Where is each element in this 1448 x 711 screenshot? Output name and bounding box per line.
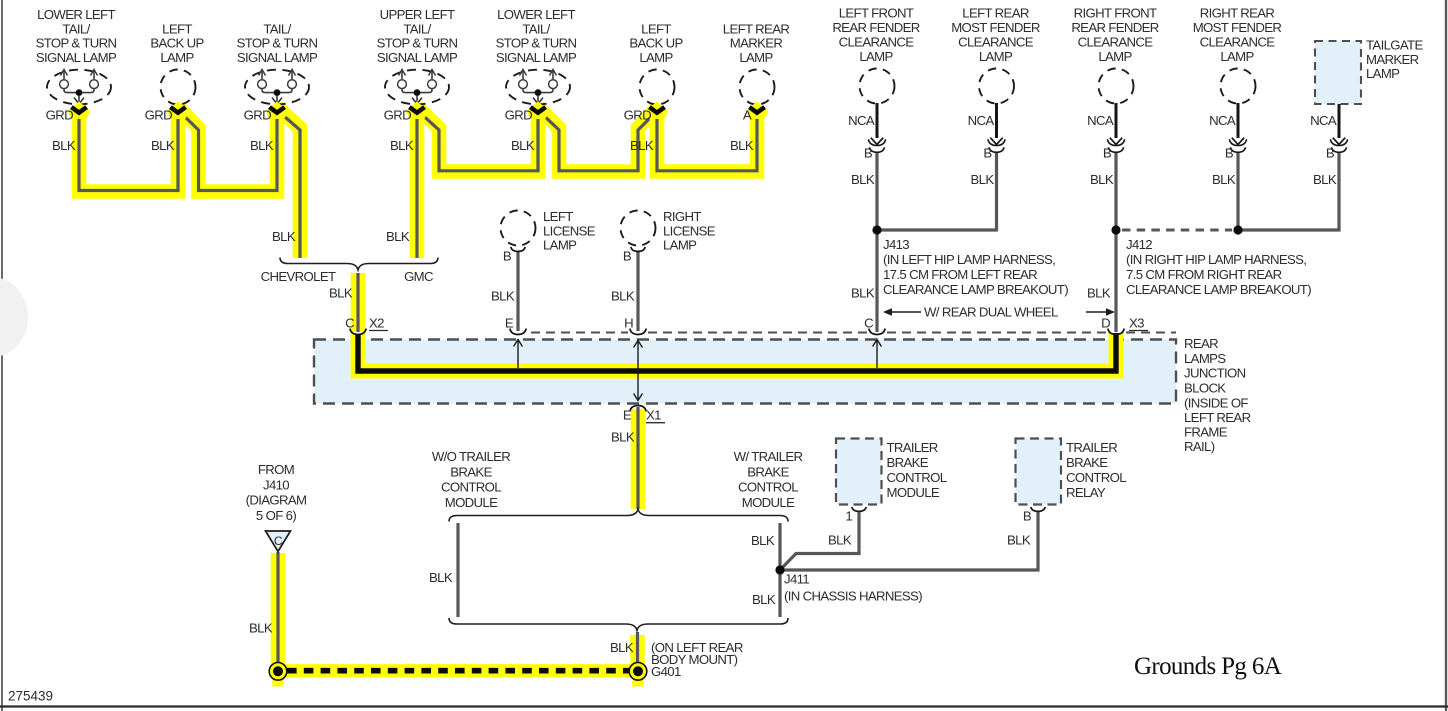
svg-text:B: B bbox=[1023, 509, 1032, 524]
splice J411 bbox=[775, 565, 784, 574]
svg-text:X3: X3 bbox=[1129, 316, 1144, 331]
internal arrow to pin E bbox=[514, 340, 523, 369]
wire: J411 to trailer brake control module pin 1 bbox=[780, 511, 859, 570]
wire: lamp4 to lamp5 (BLK, highlighted) bbox=[417, 107, 538, 172]
junction block connector face dashed line bbox=[531, 332, 1176, 334]
svg-text:BLK: BLK bbox=[751, 533, 775, 548]
svg-text:UPPER LEFT: UPPER LEFT bbox=[380, 7, 455, 22]
svg-text:TRAILER: TRAILER bbox=[887, 440, 938, 455]
svg-text:LAMP: LAMP bbox=[1098, 49, 1132, 64]
svg-text:LAMPS: LAMPS bbox=[1184, 351, 1226, 366]
lamp4 upper left tail/stop & turn signal lamp bbox=[377, 7, 458, 104]
svg-text:X1: X1 bbox=[646, 408, 661, 423]
lamp8 left front rear fender clearance lamp bbox=[832, 6, 919, 104]
svg-text:CONTROL: CONTROL bbox=[887, 470, 947, 485]
svg-text:NCA: NCA bbox=[968, 113, 995, 128]
internal arrow pin H to pin X1-E bbox=[634, 341, 643, 401]
inline connector tailgate lamp pin B bbox=[1330, 138, 1347, 153]
svg-text:GRD: GRD bbox=[244, 108, 271, 123]
svg-text:BLK: BLK bbox=[511, 138, 535, 153]
svg-text:(IN CHASSIS HARNESS): (IN CHASSIS HARNESS) bbox=[784, 589, 922, 604]
splice under lamp11 bbox=[1233, 225, 1242, 234]
svg-text:BLK: BLK bbox=[1090, 172, 1114, 187]
svg-text:J413: J413 bbox=[883, 237, 909, 252]
svg-text:B: B bbox=[864, 146, 873, 161]
svg-text:BLK: BLK bbox=[971, 172, 995, 187]
svg-text:RIGHT REAR: RIGHT REAR bbox=[1200, 6, 1275, 21]
svg-text:LAMP: LAMP bbox=[859, 49, 893, 64]
svg-text:BLK: BLK bbox=[752, 592, 776, 607]
pin labels lamp11 bbox=[1209, 113, 1236, 187]
w/o trailer brake control module label bbox=[432, 449, 510, 510]
svg-text:G401: G401 bbox=[651, 664, 681, 679]
wire: J413 splice to lamp9 bbox=[877, 228, 997, 231]
pin D / X3 labels at block entry bbox=[1101, 316, 1148, 331]
wire: left license lamp to block pin E bbox=[516, 251, 519, 331]
left license lamp bbox=[501, 209, 596, 253]
right license lamp bbox=[621, 209, 716, 253]
svg-text:REAR: REAR bbox=[1184, 336, 1218, 351]
junction block label bbox=[1184, 336, 1251, 454]
wire: NCA lead x=1238 bbox=[1237, 103, 1240, 138]
lamp10 right front rear fender clearance lamp bbox=[1071, 6, 1158, 104]
svg-text:BLK: BLK bbox=[329, 286, 353, 301]
terminal of lamp3 bbox=[266, 101, 289, 119]
wire: lamp1 ground to lamp2 (BLK, highlighted) bbox=[79, 107, 178, 192]
svg-text:H: H bbox=[624, 316, 633, 331]
wire: splice to tailgate marker lamp bbox=[1238, 152, 1339, 231]
svg-text:CLEARANCE: CLEARANCE bbox=[1200, 35, 1276, 50]
svg-text:B: B bbox=[503, 249, 512, 264]
svg-text:SIGNAL LAMP: SIGNAL LAMP bbox=[237, 50, 318, 65]
svg-text:NCA: NCA bbox=[1310, 113, 1337, 128]
svg-text:B: B bbox=[983, 146, 992, 161]
page bottom border bbox=[0, 705, 1448, 707]
left edge scroll tab bbox=[0, 278, 28, 357]
terminal of lamp6 bbox=[646, 101, 669, 119]
terminal of lamp4 bbox=[406, 101, 429, 119]
svg-text:TRAILER: TRAILER bbox=[1066, 440, 1117, 455]
svg-text:BLK: BLK bbox=[151, 138, 175, 153]
wire: lamp9 connector down bbox=[995, 152, 998, 232]
svg-text:LEFT REAR: LEFT REAR bbox=[962, 6, 1029, 21]
svg-text:BLK: BLK bbox=[272, 229, 296, 244]
svg-text:MOST FENDER: MOST FENDER bbox=[1193, 20, 1282, 35]
entry cup H bbox=[630, 329, 646, 335]
svg-text:BLK: BLK bbox=[611, 289, 635, 304]
svg-text:MOST FENDER: MOST FENDER bbox=[951, 20, 1040, 35]
terminal of lamp5 bbox=[527, 101, 550, 119]
svg-text:5 OF 6): 5 OF 6) bbox=[256, 508, 296, 523]
svg-text:1: 1 bbox=[845, 509, 852, 524]
svg-text:LICENSE: LICENSE bbox=[663, 223, 716, 238]
wire: right license lamp to block pin H bbox=[636, 251, 639, 331]
svg-text:LEFT REAR: LEFT REAR bbox=[1184, 410, 1251, 425]
lamp6 left back up lamp bbox=[629, 21, 683, 104]
svg-text:BLK: BLK bbox=[851, 172, 875, 187]
svg-text:LAMP: LAMP bbox=[639, 50, 673, 65]
lamp2 left back up lamp bbox=[150, 21, 204, 104]
svg-text:17.5 CM FROM LEFT REAR: 17.5 CM FROM LEFT REAR bbox=[883, 267, 1037, 282]
wire: lamp11 connector down bbox=[1236, 152, 1239, 232]
svg-text:C: C bbox=[864, 316, 874, 331]
pin labels lamp10 bbox=[1087, 113, 1114, 187]
svg-text:LAMP: LAMP bbox=[979, 49, 1013, 64]
w/ trailer brake control module label bbox=[734, 449, 803, 510]
ground tail left bbox=[272, 677, 284, 687]
svg-text:CLEARANCE: CLEARANCE bbox=[958, 35, 1034, 50]
svg-text:GRD: GRD bbox=[384, 108, 411, 123]
svg-text:W/ TRAILER: W/ TRAILER bbox=[734, 449, 803, 464]
svg-text:BRAKE: BRAKE bbox=[1066, 455, 1108, 470]
svg-text:LAMP: LAMP bbox=[1220, 49, 1254, 64]
right license lamp pin B cup bbox=[631, 247, 645, 252]
svg-text:7.5 CM FROM RIGHT REAR: 7.5 CM FROM RIGHT REAR bbox=[1126, 267, 1282, 282]
svg-text:BACK UP: BACK UP bbox=[150, 36, 204, 51]
svg-text:BLK: BLK bbox=[1212, 172, 1236, 187]
svg-text:BACK UP: BACK UP bbox=[629, 36, 683, 51]
svg-text:RIGHT FRONT: RIGHT FRONT bbox=[1074, 6, 1157, 21]
wire: NCA lead x=877 bbox=[876, 103, 879, 138]
wire: brace to junction block pin C X2 (BLK, highlighted) bbox=[351, 273, 366, 332]
wire: module brace to ground G401 (BLK, highlighted) bbox=[630, 635, 645, 666]
svg-text:CLEARANCE: CLEARANCE bbox=[1078, 35, 1154, 50]
svg-text:NCA: NCA bbox=[848, 113, 875, 128]
svg-text:STOP & TURN: STOP & TURN bbox=[377, 36, 458, 51]
internal arrow to pin C (J413) bbox=[873, 340, 882, 369]
svg-text:CONTROL: CONTROL bbox=[1066, 470, 1126, 485]
wire: lamp2 to lamp3 (BLK, highlighted) bbox=[178, 107, 277, 192]
lamp7 left rear marker lamp bbox=[723, 21, 790, 104]
svg-text:MARKER: MARKER bbox=[730, 36, 783, 51]
wire: lamp5 to lamp6 (BLK, highlighted) bbox=[538, 107, 657, 172]
terminal of lamp1 bbox=[68, 101, 91, 119]
left license lamp pin B cup bbox=[511, 247, 525, 252]
svg-text:BLK: BLK bbox=[1313, 172, 1337, 187]
svg-text:SIGNAL LAMP: SIGNAL LAMP bbox=[36, 50, 117, 65]
from J410 label bbox=[246, 462, 307, 523]
svg-text:BLK: BLK bbox=[386, 229, 410, 244]
svg-text:BLOCK: BLOCK bbox=[1184, 381, 1226, 396]
svg-text:C: C bbox=[345, 316, 355, 331]
lamp11 right rear most fender clearance lamp bbox=[1193, 6, 1282, 104]
svg-text:LEFT: LEFT bbox=[641, 21, 671, 36]
inline connector of lamp10 pin B bbox=[1107, 138, 1124, 153]
svg-text:TAIL/: TAIL/ bbox=[403, 21, 431, 36]
svg-text:TAILGATE: TAILGATE bbox=[1366, 38, 1423, 53]
wire: J412 dashed link to splice under lamp11 bbox=[1122, 229, 1232, 232]
svg-text:BLK: BLK bbox=[390, 138, 414, 153]
svg-text:CLEARANCE LAMP BREAKOUT): CLEARANCE LAMP BREAKOUT) bbox=[1126, 282, 1311, 297]
ground stud left (from J410) bbox=[269, 663, 287, 681]
svg-text:Grounds Pg 6A: Grounds Pg 6A bbox=[1134, 653, 1282, 680]
svg-text:MODULE: MODULE bbox=[742, 495, 795, 510]
svg-text:LEFT FRONT: LEFT FRONT bbox=[839, 6, 914, 21]
svg-text:(DIAGRAM: (DIAGRAM bbox=[246, 493, 307, 508]
wire: w/ trailer brake module path bbox=[778, 523, 781, 617]
svg-text:BLK: BLK bbox=[491, 289, 515, 304]
BLK labels J411 path bbox=[751, 533, 776, 607]
svg-text:CONTROL: CONTROL bbox=[441, 480, 501, 495]
entry cup C2 bbox=[869, 329, 885, 335]
wire: lamp3 to Chevrolet brace (BLK, highlighted) bbox=[277, 107, 300, 258]
svg-text:BRAKE: BRAKE bbox=[450, 464, 492, 479]
ground G401 note bbox=[651, 640, 743, 679]
svg-text:CLEARANCE: CLEARANCE bbox=[839, 35, 915, 50]
GRD/BLK labels lamps 1-7 bbox=[46, 108, 754, 153]
wire: junction block X1 pin E down to module brace (BLK, highlighted) bbox=[631, 409, 646, 509]
entry cup C bbox=[350, 329, 366, 335]
svg-text:W/ REAR DUAL WHEEL: W/ REAR DUAL WHEEL bbox=[924, 305, 1058, 320]
svg-text:C: C bbox=[274, 534, 283, 548]
svg-text:STOP & TURN: STOP & TURN bbox=[496, 36, 577, 51]
trailer brake control module box bbox=[836, 439, 947, 505]
relay pin B cup bbox=[1031, 507, 1045, 512]
svg-text:MODULE: MODULE bbox=[887, 485, 940, 500]
exit cup X1 bbox=[630, 406, 646, 412]
pin C / X2 labels at block entry bbox=[345, 316, 388, 331]
svg-text:LAMP: LAMP bbox=[160, 50, 194, 65]
svg-text:JUNCTION: JUNCTION bbox=[1184, 366, 1246, 381]
wire: tailgate lamp NCA lead bbox=[1338, 104, 1341, 138]
svg-text:GRD: GRD bbox=[46, 108, 73, 123]
svg-text:BLK: BLK bbox=[52, 138, 76, 153]
svg-text:B: B bbox=[623, 249, 632, 264]
svg-text:SIGNAL LAMP: SIGNAL LAMP bbox=[496, 50, 577, 65]
svg-text:W/O TRAILER: W/O TRAILER bbox=[432, 449, 510, 464]
svg-text:A: A bbox=[743, 108, 752, 123]
svg-text:BLK: BLK bbox=[1007, 533, 1031, 548]
wire: from J410 triangle down to ground (BLK, highlighted) bbox=[271, 553, 286, 666]
svg-text:CLEARANCE LAMP BREAKOUT): CLEARANCE LAMP BREAKOUT) bbox=[883, 282, 1068, 297]
svg-text:J410: J410 bbox=[263, 477, 289, 492]
rear lamps junction block bbox=[314, 340, 1176, 404]
svg-text:BLK: BLK bbox=[429, 570, 453, 585]
wire: lamp4 to GMC brace (BLK, highlighted) bbox=[410, 107, 425, 258]
tailgate marker lamp (box) bbox=[1315, 38, 1423, 105]
page left border bbox=[1, 0, 3, 711]
svg-text:LOWER LEFT: LOWER LEFT bbox=[497, 7, 575, 22]
svg-text:GRD: GRD bbox=[624, 108, 651, 123]
svg-text:BLK: BLK bbox=[730, 138, 754, 153]
J410 triangle connector C bbox=[266, 531, 291, 552]
svg-text:STOP & TURN: STOP & TURN bbox=[237, 36, 318, 51]
ground G401 bbox=[629, 663, 647, 681]
terminal of lamp7 bbox=[746, 101, 769, 119]
svg-text:NCA: NCA bbox=[1209, 113, 1236, 128]
svg-text:FROM: FROM bbox=[258, 462, 294, 477]
top option brace bbox=[449, 509, 788, 522]
svg-text:D: D bbox=[1101, 316, 1110, 331]
page right border bbox=[1445, 0, 1447, 711]
wire: lamp8 connector to J413 and block pin C bbox=[875, 152, 878, 333]
bottom option brace bbox=[449, 618, 788, 631]
svg-text:LICENSE: LICENSE bbox=[543, 223, 596, 238]
pin labels lamp9 bbox=[968, 113, 995, 187]
lamp5 lower left tail/stop & turn signal lamp bbox=[496, 7, 577, 104]
svg-text:BRAKE: BRAKE bbox=[747, 464, 789, 479]
svg-text:LEFT REAR: LEFT REAR bbox=[723, 21, 790, 36]
svg-text:SIGNAL LAMP: SIGNAL LAMP bbox=[377, 50, 458, 65]
wire: NCA lead x=1116 bbox=[1115, 103, 1118, 138]
wire: junction block internal bus (highlighted) bbox=[358, 333, 1116, 371]
module pin 1 cup bbox=[852, 507, 866, 512]
BLK labels above brand brace bbox=[272, 229, 410, 244]
svg-text:BLK: BLK bbox=[249, 621, 273, 636]
svg-text:FRAME: FRAME bbox=[1184, 424, 1228, 439]
wire: J411 to trailer brake control relay pin B bbox=[780, 511, 1038, 570]
svg-text:X2: X2 bbox=[369, 316, 384, 331]
svg-text:MODULE: MODULE bbox=[445, 495, 498, 510]
svg-text:J411: J411 bbox=[784, 572, 809, 587]
svg-text:GRD: GRD bbox=[505, 108, 532, 123]
splice J412 bbox=[1111, 225, 1120, 234]
terminal of lamp2 bbox=[167, 101, 190, 119]
svg-text:TAIL/: TAIL/ bbox=[522, 21, 550, 36]
wire: dashed ground strap between grounds (highlighted) bbox=[282, 664, 633, 677]
svg-text:B: B bbox=[1326, 146, 1335, 161]
svg-text:E: E bbox=[505, 316, 514, 331]
svg-text:LAMP: LAMP bbox=[1366, 66, 1400, 81]
svg-text:RIGHT: RIGHT bbox=[663, 209, 701, 224]
wire: lamp6 to lamp7 (BLK, highlighted) bbox=[657, 107, 757, 172]
svg-text:BLK: BLK bbox=[851, 286, 875, 301]
svg-text:STOP & TURN: STOP & TURN bbox=[36, 36, 117, 51]
wire: NCA lead x=996.5 bbox=[995, 103, 998, 138]
inline connector of lamp11 pin B bbox=[1229, 138, 1246, 153]
entry cup E bbox=[510, 329, 526, 335]
svg-text:TAIL/: TAIL/ bbox=[62, 21, 90, 36]
svg-text:BLK: BLK bbox=[611, 430, 635, 445]
svg-text:LAMP: LAMP bbox=[663, 238, 697, 253]
junction block internal bus (highlighted, redrawn above fill) bbox=[358, 333, 1116, 371]
svg-text:GMC: GMC bbox=[404, 269, 434, 284]
svg-text:(INSIDE OF: (INSIDE OF bbox=[1184, 396, 1248, 411]
svg-text:B: B bbox=[1103, 146, 1112, 161]
svg-text:BLK: BLK bbox=[250, 138, 274, 153]
svg-text:LAMP: LAMP bbox=[739, 50, 773, 65]
pin E / X1 labels at block exit bbox=[623, 408, 665, 423]
svg-text:CONTROL: CONTROL bbox=[738, 480, 798, 495]
wire: w/o trailer brake module path bbox=[456, 523, 459, 617]
wire: lamp10 connector to J412 and block pin D bbox=[1114, 152, 1117, 333]
svg-text:BLK: BLK bbox=[630, 138, 654, 153]
svg-text:CHEVROLET: CHEVROLET bbox=[261, 269, 336, 284]
svg-text:REAR FENDER: REAR FENDER bbox=[832, 20, 919, 35]
svg-text:BRAKE: BRAKE bbox=[887, 455, 929, 470]
lamp1 lower left tail/stop & turn signal lamp bbox=[36, 7, 117, 104]
svg-text:GRD: GRD bbox=[145, 108, 172, 123]
svg-text:NCA: NCA bbox=[1087, 113, 1114, 128]
svg-text:REAR FENDER: REAR FENDER bbox=[1071, 20, 1158, 35]
svg-text:(IN RIGHT HIP LAMP HARNESS,: (IN RIGHT HIP LAMP HARNESS, bbox=[1126, 252, 1306, 267]
svg-text:LEFT: LEFT bbox=[543, 209, 573, 224]
lamp3 tail/stop & turn signal lamp bbox=[237, 21, 318, 104]
ground tail right bbox=[632, 677, 644, 687]
brand selection brace bbox=[280, 258, 438, 271]
svg-text:LEFT: LEFT bbox=[162, 21, 192, 36]
svg-text:(IN LEFT HIP LAMP HARNESS,: (IN LEFT HIP LAMP HARNESS, bbox=[883, 252, 1055, 267]
svg-text:BLK: BLK bbox=[828, 533, 852, 548]
svg-text:E: E bbox=[623, 408, 632, 423]
inline connector of lamp9 pin B bbox=[988, 138, 1005, 153]
svg-text:275439: 275439 bbox=[8, 689, 53, 704]
inline connector of lamp8 pin B bbox=[868, 138, 885, 153]
svg-text:RELAY: RELAY bbox=[1066, 485, 1106, 500]
svg-text:MARKER: MARKER bbox=[1366, 52, 1419, 67]
svg-text:LAMP: LAMP bbox=[543, 238, 577, 253]
svg-text:B: B bbox=[1225, 146, 1234, 161]
lamp9 left rear most fender clearance lamp bbox=[951, 6, 1040, 104]
svg-text:LOWER LEFT: LOWER LEFT bbox=[37, 7, 115, 22]
svg-text:TAIL/: TAIL/ bbox=[263, 21, 291, 36]
w/ rear dual wheel arrows and label bbox=[883, 305, 1115, 320]
svg-text:J412: J412 bbox=[1126, 237, 1152, 252]
entry cup D bbox=[1108, 329, 1124, 335]
svg-text:RAIL): RAIL) bbox=[1184, 439, 1215, 454]
splice J413 bbox=[872, 225, 881, 234]
svg-text:BLK: BLK bbox=[610, 640, 634, 655]
pin labels lamp8 bbox=[848, 113, 875, 187]
svg-text:BLK: BLK bbox=[1087, 286, 1111, 301]
trailer brake control relay box bbox=[1016, 439, 1127, 505]
